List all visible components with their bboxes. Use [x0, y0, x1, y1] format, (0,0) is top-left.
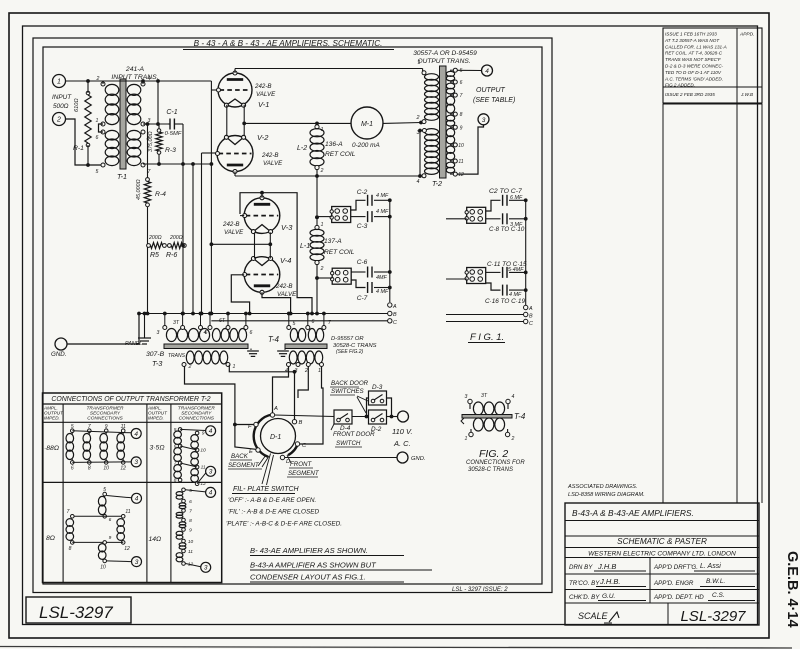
svg-text:8: 8 [88, 466, 91, 472]
svg-text:BACK DOOR: BACK DOOR [331, 380, 369, 387]
svg-text:V-4: V-4 [280, 256, 291, 265]
svg-text:INPUT: INPUT [52, 94, 72, 101]
wire D-4 to D-2 [352, 416, 369, 418]
svg-text:CALLED FOR. L1 WAS 131-A: CALLED FOR. L1 WAS 131-A [665, 44, 727, 49]
svg-text:D-1: D-1 [270, 434, 281, 441]
svg-text:C·16 TO C·19: C·16 TO C·19 [485, 298, 525, 305]
svg-text:242-B: 242-B [261, 152, 279, 159]
svg-text:3: 3 [204, 565, 208, 572]
valve V-2 [217, 136, 253, 172]
svg-text:SCHEMATIC & PASTER: SCHEMATIC & PASTER [617, 537, 707, 546]
wire bus junction dots T-4 [287, 312, 291, 316]
svg-text:B-43-A AMPLIFIER AS SHOWN: B-43-A AMPLIFIER AS SHOWN BUT [250, 561, 377, 570]
svg-text:CONNECTIONS: CONNECTIONS [87, 416, 123, 422]
svg-text:6: 6 [312, 319, 315, 325]
svg-text:FRONT: FRONT [290, 461, 313, 468]
svg-text:V-3: V-3 [281, 223, 293, 232]
svg-text:11: 11 [458, 159, 463, 165]
meter M-1 [351, 107, 383, 139]
input terminal 1 [53, 75, 66, 88]
wire R5 node down [147, 247, 149, 314]
svg-text:6T: 6T [219, 318, 226, 324]
svg-text:10: 10 [188, 539, 194, 545]
retard coil L-1 [315, 225, 319, 229]
svg-text:3: 3 [209, 469, 213, 476]
svg-text:A: A [273, 406, 278, 412]
svg-text:B-43-A & B-43-AE AMPLIFIERS.: B-43-A & B-43-AE AMPLIFIERS. [572, 508, 694, 518]
capacitor C-8 to C-10 fig1 [486, 218, 501, 220]
svg-text:D-2 & D-3 WERE CONNEC-: D-2 & D-3 WERE CONNEC- [665, 64, 724, 69]
wire main input bus y81 [66, 80, 212, 82]
svg-text:SEGMENT: SEGMENT [288, 470, 320, 477]
terminal C left bank [388, 319, 392, 323]
svg-text:IMPED.: IMPED. [44, 416, 60, 421]
page scan edge bottom [0, 647, 792, 649]
svg-text:LSL-3297: LSL-3297 [680, 608, 746, 625]
svg-text:30528-C TRANS: 30528-C TRANS [468, 467, 513, 473]
svg-text:11: 11 [201, 465, 206, 471]
svg-text:AT T.2 30557-A WAS NOT: AT T.2 30557-A WAS NOT [664, 38, 720, 43]
svg-text:9: 9 [202, 431, 205, 437]
svg-text:J.H.B.: J.H.B. [599, 577, 620, 586]
svg-text:4: 4 [209, 428, 213, 435]
wire bus x211.4 [210, 81, 212, 314]
output terminal 4 [482, 65, 493, 76]
svg-text:PANEL: PANEL [125, 341, 142, 347]
svg-text:OUTPUT TRANS.: OUTPUT TRANS. [417, 58, 470, 65]
wire D-3 loop [367, 398, 369, 417]
wire V-1 plate to top bus [234, 69, 236, 74]
svg-text:4 MF: 4 MF [376, 193, 389, 199]
svg-text:10: 10 [200, 448, 206, 454]
svg-text:6: 6 [96, 135, 99, 141]
transformer T-4 [290, 329, 297, 342]
wire M-1 row [244, 122, 351, 124]
contact B [292, 420, 296, 424]
wire bus x183 [182, 124, 184, 314]
wire input2 down to T-1 bottom [66, 119, 104, 165]
svg-text:FIG 2 ADDED.: FIG 2 ADDED. [665, 83, 695, 88]
svg-text:2: 2 [56, 117, 61, 124]
wire L-2 down to L-1 [316, 170, 318, 226]
svg-text:R5: R5 [150, 252, 159, 259]
svg-text:12: 12 [458, 172, 464, 178]
wire T-2 sec5 to terminal 4 [457, 69, 481, 71]
svg-text:200Ω: 200Ω [148, 235, 162, 241]
svg-text:C-2: C-2 [357, 189, 368, 196]
svg-text:SCALE: SCALE [578, 611, 609, 621]
door switch D-4 [334, 410, 352, 424]
svg-text:3·5Ω: 3·5Ω [150, 445, 165, 452]
svg-text:10: 10 [103, 466, 109, 472]
svg-text:T-3: T-3 [152, 359, 163, 368]
svg-text:D-95557 OR: D-95557 OR [331, 336, 364, 342]
wire V-4 plate loop [262, 292, 291, 313]
svg-text:ISSUE 2 FEB 3RD 1935: ISSUE 2 FEB 3RD 1935 [665, 92, 715, 97]
svg-text:E: E [249, 449, 253, 455]
svg-text:LSD-8358 WIRING DIAGRAM.: LSD-8358 WIRING DIAGRAM. [568, 492, 645, 498]
svg-text:GND.: GND. [411, 456, 426, 462]
svg-text:FRONT DOOR: FRONT DOOR [333, 431, 375, 438]
svg-text:4MF: 4MF [376, 275, 387, 281]
contact D [280, 455, 284, 459]
svg-text:5: 5 [103, 487, 106, 493]
wire E to T-3 sec2 [185, 367, 257, 450]
svg-text:5: 5 [460, 68, 463, 74]
svg-text:GND.: GND. [51, 351, 66, 358]
schematic border outer [33, 38, 552, 593]
wire bus C y320.8 [211, 320, 387, 322]
svg-text:T-4: T-4 [268, 335, 280, 344]
schematic border inner [43, 47, 542, 584]
svg-text:SWITCHES: SWITCHES [331, 388, 365, 395]
svg-text:B: B [299, 420, 303, 426]
svg-text:2: 2 [320, 266, 324, 272]
svg-text:T-1: T-1 [117, 172, 127, 181]
capacitor C-3 [351, 216, 366, 218]
contact C [295, 442, 299, 446]
svg-text:C-6: C-6 [357, 259, 368, 266]
svg-text:VALVE: VALVE [256, 91, 276, 98]
wire bus x201.5 [201, 153, 203, 314]
svg-text:241-A: 241-A [125, 66, 145, 73]
svg-text:INPUT TRANS.: INPUT TRANS. [111, 74, 158, 81]
svg-text:9: 9 [460, 125, 463, 131]
switch D-1 back segment arc [254, 415, 272, 457]
svg-text:3T: 3T [481, 393, 488, 399]
svg-text:B - 43 - A & B - 43 - AE: B - 43 - A & B - 43 - AE AMPLIFIERS. SCH… [194, 39, 383, 48]
wire fig1 cap bus [525, 200, 527, 305]
capacitor C-11 to C-15 fig1 [486, 271, 501, 273]
wire V-3 plate loop [240, 193, 312, 314]
svg-text:B: B [393, 312, 397, 318]
capacitor C-16 to C-19 fig1 [486, 283, 501, 290]
terminal GND right [397, 452, 408, 463]
svg-text:30557-A OR D-95459: 30557-A OR D-95459 [413, 50, 477, 57]
wire V3-V4 filament links [254, 232, 256, 258]
wire B to T-3 sec1 [229, 365, 294, 420]
svg-text:0-200 mA: 0-200 mA [352, 142, 380, 149]
svg-text:B.W.L.: B.W.L. [706, 578, 725, 585]
wire L-1 term2 down [316, 265, 318, 314]
svg-text:4: 4 [135, 496, 139, 503]
svg-text:7: 7 [460, 93, 463, 99]
svg-text:'PLATE' :- A-B-C & D-E-F ARE: 'PLATE' :- A-B-C & D-E-F ARE CLOSED. [226, 521, 342, 528]
svg-text:R-4: R-4 [155, 191, 166, 198]
wire A to D-4 [275, 415, 334, 417]
svg-text:R-6: R-6 [166, 252, 177, 259]
wire fig1 line B [446, 314, 524, 316]
wire V-2 plate to bottom bus [234, 172, 236, 177]
svg-text:C·8 TO C·10: C·8 TO C·10 [489, 226, 525, 233]
svg-text:2: 2 [188, 364, 192, 370]
svg-text:4: 4 [512, 394, 515, 400]
svg-text:10: 10 [100, 565, 106, 571]
svg-text:1: 1 [233, 364, 236, 370]
resistor R-4 [147, 124, 149, 178]
svg-text:6: 6 [189, 499, 192, 505]
svg-text:LSL - 3297 ISSUE: 2: LSL - 3297 ISSUE: 2 [452, 587, 508, 593]
svg-text:J.W.B: J.W.B [740, 92, 753, 97]
svg-text:12: 12 [124, 546, 130, 552]
svg-text:R-1: R-1 [73, 145, 84, 152]
wire GND to bus [67, 314, 139, 345]
svg-text:242-B: 242-B [254, 83, 272, 90]
wire T-4 sec2 drop [298, 367, 308, 399]
wire V-4 grid loop [231, 275, 249, 314]
wire node row y124 [143, 123, 168, 125]
relay box (C-2/C-3 bank) [332, 207, 351, 223]
svg-text:L. Assi: L. Assi [700, 563, 721, 570]
svg-text:307-B: 307-B [146, 351, 165, 358]
svg-text:C-7: C-7 [357, 295, 368, 302]
svg-text:WESTERN ELECTRIC COMPANY LTD: WESTERN ELECTRIC COMPANY LTD. LONDON [588, 551, 736, 558]
svg-text:12: 12 [200, 481, 206, 487]
contact A [270, 413, 274, 417]
wire bus x193 [192, 164, 194, 314]
svg-text:4 MF: 4 MF [376, 289, 389, 295]
wire box2 left [317, 277, 332, 279]
wire fig1 line C [446, 321, 524, 323]
svg-text:M-1: M-1 [361, 121, 373, 128]
capacitor C-6 [351, 271, 365, 273]
svg-text:TED TO D OF D-1 AT 110V: TED TO D OF D-1 AT 110V [665, 70, 722, 75]
terminal 110V [398, 411, 409, 422]
terminal B fig1 [524, 312, 528, 316]
svg-text:APP'D DRFT'G.: APP'D DRFT'G. [653, 564, 698, 571]
svg-text:1: 1 [96, 118, 99, 124]
terminal C fig1 [524, 319, 528, 323]
svg-text:RET COIL. AT T-4, 30628-C: RET COIL. AT T-4, 30628-C [665, 51, 723, 56]
svg-text:4: 4 [485, 68, 489, 75]
svg-text:4: 4 [134, 431, 138, 438]
valve V-1 [218, 73, 252, 107]
svg-text:VALVE: VALVE [277, 291, 297, 298]
svg-text:A. C.: A. C. [393, 439, 411, 448]
svg-text:3: 3 [134, 459, 138, 466]
svg-text:6: 6 [460, 80, 463, 86]
svg-text:3: 3 [157, 330, 160, 336]
svg-text:·88Ω: ·88Ω [44, 445, 59, 452]
svg-text:L-1: L-1 [300, 243, 310, 250]
svg-text:D-2: D-2 [371, 426, 382, 433]
contact E [256, 448, 260, 452]
terminal B left bank [388, 311, 392, 315]
transformer T-1 [120, 79, 126, 169]
wire T-2 term1 drop [422, 69, 424, 72]
table connections of output transformer T-2 [43, 393, 222, 583]
svg-text:5·4MF: 5·4MF [508, 267, 524, 273]
svg-text:T-4: T-4 [514, 412, 526, 421]
terminal A left bank [388, 303, 392, 307]
svg-text:610Ω: 610Ω [74, 98, 80, 112]
svg-text:'OFF' :- A-B & D-E ARE OPEN: 'OFF' :- A-B & D-E ARE OPEN. [228, 497, 316, 504]
svg-text:136-A: 136-A [325, 141, 343, 148]
wire fig1 box2 left [446, 278, 467, 280]
wire R6 to bus [183, 245, 184, 247]
svg-text:8: 8 [69, 546, 72, 552]
svg-text:11: 11 [121, 424, 126, 430]
resistor R-1 [87, 81, 89, 93]
rotary switch D-1 [261, 419, 296, 454]
svg-text:CHK'D. BY: CHK'D. BY [569, 594, 600, 601]
svg-text:1: 1 [57, 79, 61, 86]
svg-text:FIG. 2: FIG. 2 [479, 448, 508, 460]
title block [565, 503, 759, 625]
resistor R-5 [147, 244, 151, 248]
valve V-4 [244, 257, 280, 293]
wire V-1 grid lead [211, 89, 218, 91]
svg-text:2: 2 [416, 115, 420, 121]
panel ground [144, 314, 146, 339]
transformer T-3 [166, 329, 176, 342]
svg-text:3: 3 [135, 559, 139, 566]
svg-text:200Ω: 200Ω [169, 235, 183, 241]
svg-text:1: 1 [318, 368, 321, 374]
wire R-4 to R5 [147, 207, 149, 244]
svg-text:6: 6 [71, 466, 74, 472]
wire D-2 to 110V [387, 416, 398, 418]
svg-text:3: 3 [482, 117, 486, 124]
wire T-2 term3 drop [419, 131, 421, 177]
svg-text:D-3: D-3 [372, 384, 383, 391]
svg-text:B: B [529, 314, 533, 320]
svg-text:F I G. 1.: F I G. 1. [470, 332, 504, 343]
revision table [663, 28, 762, 103]
svg-text:CONNECTIONS FOR: CONNECTIONS FOR [466, 460, 525, 466]
svg-text:14Ω: 14Ω [149, 536, 162, 543]
svg-text:7: 7 [189, 509, 192, 515]
svg-text:TRANS WAS NOT SPEC'F: TRANS WAS NOT SPEC'F [665, 57, 722, 62]
relay box (C2-C7 fig1) [467, 207, 486, 223]
svg-text:C2 TO C-7: C2 TO C-7 [489, 188, 522, 195]
wire V1-V2 filament links [226, 105, 228, 136]
svg-text:0·5MF: 0·5MF [165, 131, 182, 137]
svg-text:2: 2 [304, 368, 308, 374]
relay box (C-6/C-7 bank) [332, 268, 351, 284]
svg-text:6: 6 [109, 517, 112, 523]
svg-text:RET COIL: RET COIL [324, 249, 355, 256]
table cell .88 ohm connection [71, 429, 75, 433]
svg-text:V-1: V-1 [258, 100, 269, 109]
wire A up to T-4 sec4 [273, 367, 289, 413]
svg-text:5: 5 [96, 169, 99, 175]
wire T-2 sec12 to terminal 3 [457, 125, 483, 174]
svg-text:2: 2 [320, 168, 324, 174]
wire V-2 grid lead [202, 152, 218, 154]
ground terminal GND [55, 338, 67, 350]
svg-text:OUTPUT: OUTPUT [476, 87, 506, 94]
svg-text:APP'D. ENGR: APP'D. ENGR [653, 580, 694, 587]
svg-text:45,000Ω: 45,000Ω [136, 179, 142, 200]
capacitor C-7 [351, 280, 365, 288]
svg-text:6: 6 [205, 330, 208, 336]
svg-text:ASSOCIATED DRAWINGS.: ASSOCIATED DRAWINGS. [567, 484, 637, 490]
svg-text:A: A [528, 306, 533, 312]
svg-text:11: 11 [188, 549, 193, 555]
svg-text:4: 4 [285, 368, 288, 374]
capacitor C-2 [351, 200, 366, 210]
wire V3 filament row y244.3 [211, 243, 270, 245]
resistor R-6 [168, 244, 172, 248]
wire input1 to T-1 [66, 80, 104, 82]
wire top bus y68.5 [235, 68, 423, 70]
svg-text:7: 7 [88, 424, 91, 430]
wire fig1 box1 left [446, 218, 467, 220]
svg-text:8Ω: 8Ω [46, 535, 55, 542]
svg-text:5: 5 [71, 424, 74, 430]
svg-text:137-A: 137-A [324, 238, 342, 245]
svg-text:G.E.B. 4·14: G.E.B. 4·14 [784, 551, 800, 628]
svg-text:110 V.: 110 V. [392, 427, 413, 436]
svg-text:5: 5 [189, 488, 192, 494]
svg-text:1: 1 [321, 222, 324, 228]
svg-text:RET COIL: RET COIL [325, 151, 356, 158]
svg-text:R-3: R-3 [165, 147, 176, 154]
svg-text:G.U.: G.U. [602, 593, 616, 600]
wire bus junction dots T-3 [163, 312, 167, 316]
svg-text:BACK: BACK [231, 453, 249, 460]
svg-text:8: 8 [460, 112, 463, 118]
wire D to GND right [285, 457, 397, 459]
svg-text:C: C [393, 320, 397, 326]
output terminal 3 [478, 114, 489, 125]
svg-text:TR'CO. BY: TR'CO. BY [569, 580, 600, 587]
capacitor C2 to C-7 fig1 [486, 200, 501, 211]
door switch D-2 [369, 410, 387, 424]
svg-text:L-2: L-2 [297, 145, 307, 152]
svg-text:8: 8 [189, 518, 192, 524]
wire bus B y313.5 [139, 313, 388, 315]
contact F [254, 422, 258, 426]
svg-text:FIL- PLATE SWITCH: FIL- PLATE SWITCH [233, 486, 300, 493]
svg-text:(SEE FIG.2): (SEE FIG.2) [336, 349, 364, 355]
svg-text:J.H.B: J.H.B [597, 562, 616, 571]
svg-text:500Ω: 500Ω [53, 103, 69, 110]
svg-text:C-3: C-3 [357, 223, 368, 230]
svg-text:242-B: 242-B [222, 221, 240, 228]
svg-text:IMPED.: IMPED. [148, 416, 164, 421]
wire cap bus x389.8 [389, 200, 391, 302]
svg-text:4: 4 [209, 490, 213, 497]
svg-text:APPD.: APPD. [739, 32, 754, 38]
svg-text:C-1: C-1 [166, 109, 177, 116]
svg-text:V-2: V-2 [257, 133, 269, 142]
svg-text:3T: 3T [173, 320, 180, 326]
svg-text:6 MF: 6 MF [510, 195, 523, 201]
svg-text:LSL-3297: LSL-3297 [39, 603, 113, 622]
input terminal 2 [53, 113, 66, 126]
svg-text:1: 1 [321, 127, 324, 133]
door switch D-3 [369, 391, 387, 405]
svg-text:5: 5 [293, 321, 296, 327]
valve V-3 [244, 198, 280, 234]
svg-text:ISSUE 1 FEB 16TH 1933: ISSUE 1 FEB 16TH 1933 [665, 32, 717, 37]
wire V-3 grid lead [240, 215, 244, 217]
fig2 transformer T-4 [469, 404, 471, 409]
svg-text:CONNECTIONS: CONNECTIONS [179, 416, 215, 422]
retard coil L-2 [315, 125, 319, 129]
svg-text:C.S.: C.S. [712, 592, 725, 599]
svg-text:CONDENSER LAYOUT AS FIG.1.: CONDENSER LAYOUT AS FIG.1. [250, 573, 366, 582]
svg-text:11: 11 [125, 509, 130, 515]
svg-text:SEGMENT: SEGMENT [228, 462, 260, 469]
svg-text:(SEE TABLE): (SEE TABLE) [473, 97, 515, 104]
svg-text:6: 6 [250, 330, 253, 336]
wire bottom bus y176 [235, 175, 421, 177]
svg-text:TRANS: TRANS [168, 353, 186, 359]
svg-text:9: 9 [109, 535, 112, 541]
